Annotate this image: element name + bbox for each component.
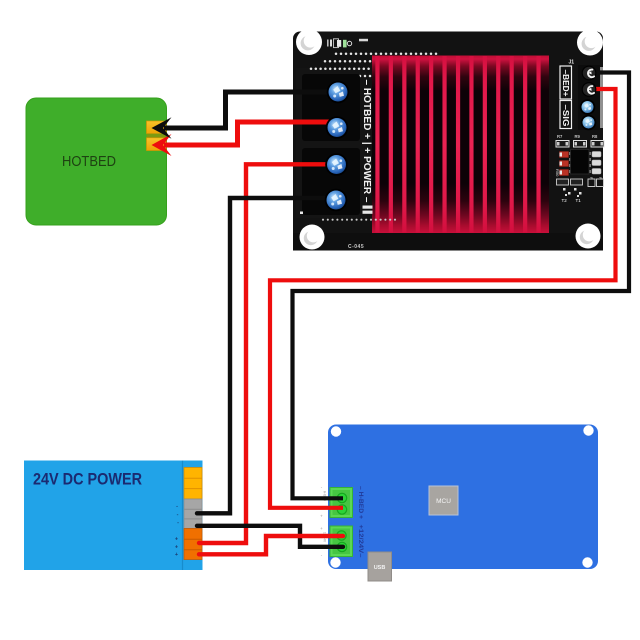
mainboard PCB bbox=[328, 425, 598, 570]
capacitor C2 bbox=[592, 160, 601, 166]
PSU plus polarity marks bbox=[175, 537, 178, 559]
H-BED screw top bbox=[337, 493, 346, 502]
terminal screw BED+ bbox=[582, 82, 597, 97]
12/24V screw bottom bbox=[337, 542, 346, 551]
IC chip U1 bbox=[569, 150, 591, 175]
svg-text:-: - bbox=[177, 512, 179, 518]
resistor R5 bbox=[597, 177, 604, 187]
mainboard hole bottom-left bbox=[330, 557, 340, 567]
24V DC power supply block bbox=[24, 461, 203, 571]
terminal screw POWER+ bbox=[325, 153, 348, 176]
svg-text:R50: R50 bbox=[555, 169, 560, 177]
hotbed block bbox=[26, 98, 167, 225]
terminal screw POWER- bbox=[325, 189, 348, 212]
label box -SIG bbox=[560, 101, 572, 129]
module mounting hole top-left bbox=[296, 29, 322, 55]
resistor R8 bbox=[591, 134, 604, 147]
tiny wire tag marks bbox=[320, 485, 326, 558]
arrowhead black bbox=[152, 117, 172, 139]
svg-text:R8: R8 bbox=[592, 134, 598, 139]
PSU minus polarity marks bbox=[176, 504, 179, 527]
diode D1 bbox=[560, 152, 569, 158]
wire black -BED to H-BED bbox=[293, 73, 630, 499]
svg-text:T1: T1 bbox=[576, 198, 582, 203]
PSU terminal gray cells bbox=[184, 499, 202, 529]
svg-text:+: + bbox=[320, 514, 323, 519]
mainboard hole top-left bbox=[331, 426, 341, 436]
svg-text:R7: R7 bbox=[557, 134, 563, 139]
svg-text:+: + bbox=[320, 526, 323, 531]
svg-text:+: + bbox=[175, 552, 178, 558]
terminal screw SIG1 bbox=[580, 99, 596, 115]
mainboard hole bottom-right bbox=[582, 557, 592, 567]
resistor R2 bbox=[588, 177, 595, 187]
hotbed connector tab upper bbox=[147, 121, 167, 134]
H-BED terminal block bbox=[330, 488, 353, 518]
svg-text:USB: USB bbox=[374, 565, 386, 571]
terminal screw SIG2 bbox=[581, 115, 597, 131]
wire red +POWER to PSU bbox=[199, 164, 330, 543]
capacitor C1 bbox=[592, 152, 601, 158]
resistor row lower 1 bbox=[557, 179, 569, 185]
terminal screw HOTBED+ bbox=[326, 116, 349, 139]
PSU terminal orange cells bbox=[184, 529, 202, 560]
wire black -POWER to PSU bbox=[197, 198, 330, 513]
svg-text:HOTBED: HOTBED bbox=[62, 153, 116, 170]
svg-text:–BED+: –BED+ bbox=[561, 70, 570, 97]
capacitor C3 bbox=[592, 169, 601, 175]
hotbed tab gap band bbox=[147, 134, 167, 138]
svg-text:T2: T2 bbox=[562, 198, 568, 203]
PSU terminal yellow cells bbox=[184, 468, 202, 500]
svg-text:–SIG: –SIG bbox=[561, 105, 570, 127]
svg-text:R9: R9 bbox=[575, 134, 581, 139]
module left terminal body lower bbox=[302, 148, 360, 215]
svg-text:C-045: C-045 bbox=[348, 244, 364, 250]
diode D3 bbox=[560, 170, 569, 176]
module left terminal body upper bbox=[302, 74, 360, 141]
svg-text:– HOTBED + | + POWER –: – HOTBED + | + POWER – bbox=[361, 80, 373, 203]
module mounting hole bottom-right bbox=[576, 224, 601, 249]
svg-text:24V DC POWER: 24V DC POWER bbox=[33, 470, 142, 489]
arrowhead red bbox=[152, 134, 172, 156]
diode D2 bbox=[560, 161, 569, 167]
resistor R9 bbox=[574, 134, 587, 147]
svg-text:+: + bbox=[175, 537, 178, 543]
mainboard hole top-right bbox=[583, 425, 593, 435]
svg-text:-: - bbox=[177, 520, 179, 526]
12/24V terminal block bbox=[330, 526, 353, 557]
svg-text:J1: J1 bbox=[569, 60, 575, 66]
12/24V screw top bbox=[337, 531, 346, 540]
wire black PSU to 12/24V minus bbox=[197, 526, 343, 547]
via dot grid bottom bbox=[322, 219, 396, 221]
module mounting hole top-right bbox=[577, 30, 603, 56]
svg-text:+: + bbox=[175, 545, 178, 551]
svg-text:+12/24V–: +12/24V– bbox=[357, 525, 364, 558]
module silkscreen cluster top-left bbox=[327, 39, 368, 48]
wire red PSU to 12/24V plus bbox=[199, 536, 343, 554]
wire red +BED to H-BED bbox=[270, 89, 616, 508]
module via dot grid top bbox=[310, 53, 438, 78]
module right terminal body J1 bbox=[578, 65, 603, 130]
transistor labels T2 T1 bbox=[562, 198, 582, 203]
heatsink fins bbox=[375, 56, 540, 233]
hotbed connector tab lower bbox=[147, 138, 167, 151]
module mounting hole bottom-left bbox=[300, 225, 325, 250]
wire red HOTBED+ to hotbed bbox=[164, 122, 330, 145]
resistor row lower 2 bbox=[571, 179, 583, 185]
USB connector bbox=[368, 552, 392, 581]
silkscreen bars bottom-left bbox=[300, 206, 373, 215]
svg-text:-: - bbox=[176, 504, 178, 510]
small parts cluster bbox=[563, 188, 582, 197]
svg-text:– H-BED +: – H-BED + bbox=[357, 486, 364, 519]
MOSFET module PCB bbox=[293, 32, 603, 251]
svg-text:MCU: MCU bbox=[436, 498, 451, 505]
terminal screw HOTBED- bbox=[327, 81, 350, 104]
H-BED screw bottom bbox=[337, 505, 346, 514]
terminal screw BED- bbox=[582, 66, 597, 81]
MCU chip bbox=[429, 486, 458, 515]
resistor R7 bbox=[556, 134, 569, 147]
wire black HOTBED- to hotbed bbox=[164, 92, 330, 128]
heatsink base bbox=[372, 56, 549, 234]
label box -BED+ bbox=[560, 66, 572, 99]
